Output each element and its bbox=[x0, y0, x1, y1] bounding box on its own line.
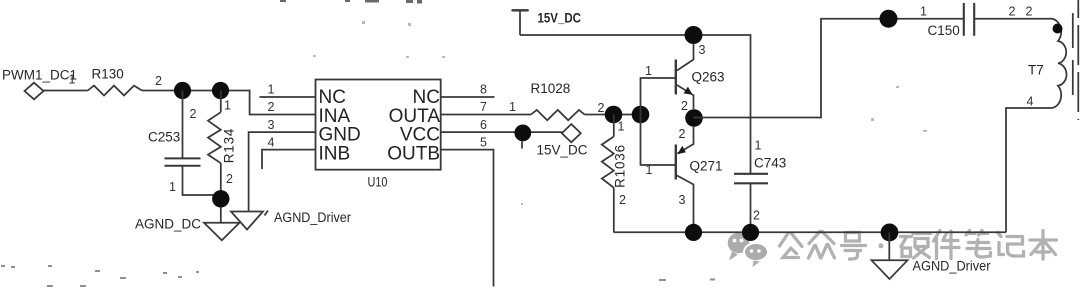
svg-text:OUTB: OUTB bbox=[387, 143, 440, 164]
svg-text:2: 2 bbox=[226, 172, 233, 186]
svg-text:C743: C743 bbox=[754, 156, 786, 171]
T7 core lines bbox=[1072, 13, 1074, 100]
wire 15V_DC rail to C743 bbox=[520, 35, 751, 174]
junction node A bbox=[174, 82, 191, 99]
svg-text:AGND_Driver: AGND_Driver bbox=[913, 258, 991, 273]
junction C743 bottom bbox=[742, 224, 759, 241]
svg-text:1: 1 bbox=[268, 83, 275, 97]
svg-text:2: 2 bbox=[1026, 5, 1033, 19]
svg-text:4: 4 bbox=[268, 135, 275, 149]
junction VCC bbox=[514, 124, 531, 141]
junction Q271 collector bbox=[685, 224, 702, 241]
junction Q263 collector bbox=[685, 26, 703, 44]
junction node B bbox=[212, 82, 229, 99]
faint artifacts bbox=[280, 0, 422, 4]
svg-text:2: 2 bbox=[268, 100, 275, 114]
svg-text:1: 1 bbox=[646, 163, 653, 177]
svg-text:2: 2 bbox=[598, 101, 605, 115]
junction node C bbox=[212, 190, 229, 207]
junction base node bbox=[632, 106, 650, 124]
svg-text:1: 1 bbox=[618, 120, 625, 134]
svg-text:1: 1 bbox=[645, 64, 652, 78]
junction R1028/R1036 bbox=[605, 106, 623, 124]
svg-text:AGND_Driver: AGND_Driver bbox=[274, 210, 351, 225]
T7 polarity dot bbox=[1053, 24, 1063, 34]
wire diamond to R130 bbox=[44, 90, 88, 92]
svg-text:C253: C253 bbox=[148, 130, 180, 145]
junction top right bbox=[880, 10, 898, 28]
svg-text:2: 2 bbox=[1009, 5, 1016, 19]
resistor R1028 bbox=[531, 110, 585, 120]
pin 5 wire OUTB down bbox=[441, 150, 494, 287]
port 15V_DC diamond bbox=[562, 124, 581, 142]
svg-text:2: 2 bbox=[155, 74, 162, 88]
svg-text:1: 1 bbox=[224, 99, 231, 113]
svg-text:2: 2 bbox=[190, 107, 197, 121]
svg-text:1: 1 bbox=[169, 180, 176, 194]
IC U10 bbox=[316, 80, 441, 170]
VCC stub bbox=[521, 141, 523, 149]
pin 3 wire to ground bbox=[249, 132, 316, 211]
capacitor C743 bbox=[734, 174, 768, 232]
svg-text:6: 6 bbox=[480, 118, 487, 132]
pin 4 stub bbox=[262, 150, 316, 169]
port PWM1_DC1 bbox=[25, 83, 44, 100]
tick mark bbox=[265, 211, 269, 216]
wire R1028 to node bbox=[585, 114, 650, 116]
resistor R134 bbox=[208, 91, 221, 223]
svg-text:R1036: R1036 bbox=[613, 144, 628, 188]
svg-text:Q263: Q263 bbox=[692, 69, 725, 84]
svg-text:R130: R130 bbox=[92, 67, 124, 82]
power symbol 15V_DC bbox=[512, 10, 529, 35]
pin 6 wire VCC bbox=[441, 131, 562, 133]
svg-text:VCC: VCC bbox=[400, 124, 440, 145]
svg-text:Q271: Q271 bbox=[690, 158, 723, 173]
svg-text:15V_DC: 15V_DC bbox=[537, 143, 588, 158]
svg-text:AGND_DC: AGND_DC bbox=[135, 217, 201, 232]
svg-text:1: 1 bbox=[755, 139, 762, 153]
svg-text:3: 3 bbox=[268, 118, 275, 132]
watermark icon bbox=[728, 233, 768, 267]
resistor R130 bbox=[88, 86, 142, 96]
svg-text:INB: INB bbox=[319, 143, 351, 164]
svg-text:1: 1 bbox=[509, 100, 516, 114]
ground AGND_DC bbox=[204, 223, 240, 241]
ground AGND_Driver right bbox=[872, 232, 908, 279]
svg-text:5: 5 bbox=[480, 135, 487, 149]
transistor Q263 bbox=[676, 44, 694, 110]
junction emitter node bbox=[685, 109, 703, 127]
svg-text:U10: U10 bbox=[368, 175, 388, 190]
svg-text:R134: R134 bbox=[222, 128, 237, 163]
svg-text:1: 1 bbox=[920, 4, 927, 18]
svg-text:2: 2 bbox=[681, 99, 688, 113]
transistor Q271 bbox=[676, 126, 694, 225]
ground AGND_Driver left bbox=[231, 212, 263, 230]
transformer T7 winding bbox=[1006, 19, 1066, 233]
pin 7 wire bbox=[441, 114, 531, 116]
svg-text:8: 8 bbox=[480, 83, 487, 97]
svg-text:4: 4 bbox=[1027, 95, 1034, 109]
svg-text:C150: C150 bbox=[928, 23, 960, 38]
pin 8 wire bbox=[441, 96, 495, 98]
svg-text:2: 2 bbox=[679, 127, 686, 141]
capacitor C150 bbox=[964, 3, 974, 36]
watermark text 公众号·硬件笔记本 bbox=[780, 231, 1057, 260]
svg-text:2: 2 bbox=[753, 209, 760, 223]
svg-text:1: 1 bbox=[69, 73, 76, 87]
svg-text:2: 2 bbox=[619, 193, 626, 207]
svg-text:NC: NC bbox=[319, 87, 346, 108]
svg-text:T7: T7 bbox=[1028, 63, 1044, 78]
wire emitter to C150 bbox=[694, 19, 964, 118]
wire R130 to U10 pin 2 bbox=[142, 91, 316, 115]
svg-text:NC: NC bbox=[413, 87, 440, 108]
svg-text:3: 3 bbox=[679, 193, 686, 207]
junction bottom ground bbox=[881, 224, 899, 242]
bottom rail bbox=[614, 231, 1007, 233]
capacitor C253 bbox=[165, 91, 221, 196]
svg-text:PWM1_DC1: PWM1_DC1 bbox=[2, 68, 77, 83]
pin 1 wire bbox=[260, 96, 316, 98]
wire base column bbox=[641, 78, 676, 165]
wire C150 to T7 bbox=[974, 18, 1050, 20]
svg-text:3: 3 bbox=[699, 43, 706, 57]
svg-text:15V_DC: 15V_DC bbox=[538, 10, 582, 25]
svg-text:7: 7 bbox=[480, 100, 487, 114]
svg-text:R1028: R1028 bbox=[531, 81, 571, 96]
resistor R1036 bbox=[602, 115, 614, 233]
svg-text:GND: GND bbox=[319, 124, 361, 145]
